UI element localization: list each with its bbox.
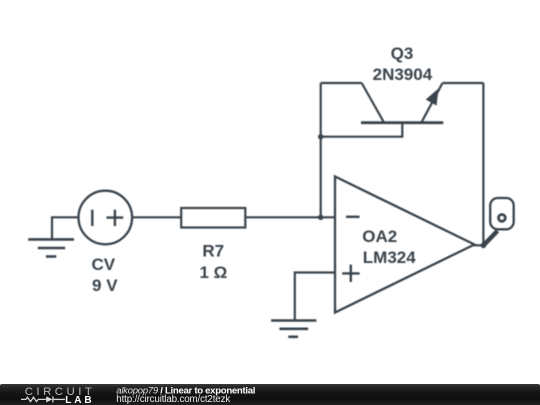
svg-text:LM324: LM324 <box>363 248 416 267</box>
svg-text:2N3904: 2N3904 <box>373 65 433 84</box>
svg-text:Q3: Q3 <box>391 44 414 63</box>
svg-text:9 V: 9 V <box>92 276 118 295</box>
svg-text:http://circuitlab.com/ct2tezk: http://circuitlab.com/ct2tezk <box>116 394 230 405</box>
svg-text:OA2: OA2 <box>362 227 397 246</box>
svg-text:CV: CV <box>91 255 115 274</box>
svg-text:R7: R7 <box>202 242 224 261</box>
svg-text:LAB: LAB <box>65 395 94 405</box>
svg-text:1 Ω: 1 Ω <box>199 263 227 282</box>
